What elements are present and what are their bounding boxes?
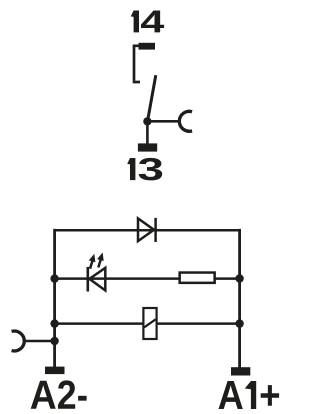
wire junction to terminal 13 — [146, 121, 149, 143]
diode V1 triangle — [138, 218, 154, 241]
wire middle (LED + resistor branch) — [55, 277, 240, 280]
wire bottom (coil branch) — [55, 322, 240, 325]
relay coil K1 diagonal — [144, 319, 156, 327]
terminal 14 bar — [139, 43, 156, 50]
wire right rail — [238, 229, 241, 368]
LED light arrow 1 — [89, 254, 96, 269]
terminal A2- bar — [45, 367, 65, 375]
socket connector (contact 11/14 plug) — [179, 111, 192, 131]
wire left rail — [53, 229, 56, 367]
LED cathode bar — [87, 267, 90, 292]
contact blade (NO contact) — [148, 75, 156, 121]
resistor R1 — [180, 273, 215, 283]
terminal 13 bar — [138, 143, 157, 151]
node left rail / coil branch — [50, 319, 58, 327]
diode V1 cathode bar — [154, 218, 157, 242]
wire from junction to socket contact — [147, 120, 178, 123]
socket connector (coil plug) — [12, 331, 25, 351]
node right rail / resistor branch — [235, 274, 243, 282]
terminal label A1+ — [219, 381, 280, 409]
wire top (diode branch) — [55, 229, 240, 232]
node left rail / LED branch — [50, 274, 58, 282]
terminal label A2- — [31, 380, 87, 408]
LED light arrow 2 — [97, 253, 104, 268]
terminal label 14 — [131, 11, 164, 33]
LED triangle — [89, 268, 105, 291]
terminal label 13 — [127, 158, 162, 181]
contact fixed terminal foot — [133, 81, 140, 84]
terminal A1+ bar — [231, 367, 250, 375]
node right rail / coil branch — [235, 319, 243, 327]
node junction 13 — [143, 117, 151, 125]
relay coil K1 body — [143, 308, 156, 339]
node left rail / socket branch — [50, 337, 58, 345]
contact fixed terminal (from 14) — [134, 46, 140, 81]
wire to socket connector A2 — [25, 340, 54, 343]
